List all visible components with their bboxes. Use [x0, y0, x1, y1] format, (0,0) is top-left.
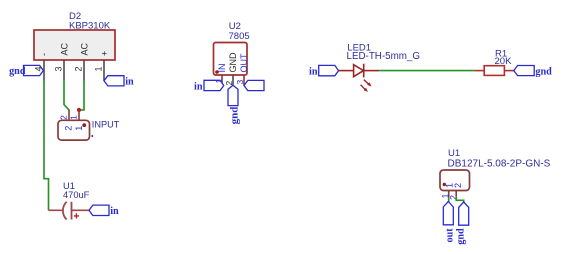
- svg-text:1: 1: [69, 115, 79, 120]
- pin 2 of D2: [83, 60, 85, 81]
- svg-text:gnd: gnd: [456, 228, 467, 245]
- connector INPUT pin 1 stub: [78, 110, 80, 120]
- svg-text:out: out: [445, 228, 456, 243]
- pin 1 of terminal U1: [448, 191, 450, 198]
- pin 1 of D2: [103, 60, 105, 81]
- capacitor straight plate: [71, 202, 73, 220]
- LED anode lead: [339, 70, 354, 72]
- svg-text:4: 4: [34, 66, 44, 71]
- svg-text:in: in: [125, 77, 134, 88]
- svg-text:DB127L-5.08-2P-GN-S: DB127L-5.08-2P-GN-S: [448, 159, 551, 170]
- resistor R1 lead right: [504, 70, 513, 72]
- resistor R1 body: [484, 66, 504, 76]
- LED emission arrow 2: [361, 85, 368, 92]
- svg-text:7805: 7805: [229, 31, 250, 42]
- svg-text:2: 2: [74, 66, 84, 71]
- svg-text:gnd: gnd: [535, 67, 552, 78]
- LED emission arrow 1: [364, 80, 372, 87]
- label dot: [91, 135, 93, 137]
- connector INPUT body: [58, 120, 90, 140]
- net flag in (U2 pin1): [204, 80, 224, 90]
- svg-text:U1: U1: [448, 148, 460, 159]
- capacitor C lead left: [49, 209, 64, 211]
- junction dot: [77, 108, 81, 112]
- terminal block U1 body: [440, 170, 470, 191]
- wire terminal pin2 to gnd flag: [456, 196, 464, 202]
- pin 2 of terminal U1: [455, 191, 457, 197]
- svg-text:3: 3: [235, 80, 245, 85]
- regulator U2 body: [214, 43, 248, 76]
- capacitor plus sign: [74, 213, 79, 218]
- capacitor lead right: [72, 209, 89, 211]
- connector INPUT pin1 mark dot: [82, 123, 86, 127]
- wire bridge pin4 to capacitor: [44, 81, 49, 211]
- LED cathode bar: [363, 64, 365, 78]
- net flag in (capacitor): [89, 205, 109, 215]
- svg-text:AC: AC: [60, 42, 70, 55]
- pin 3 of D2: [63, 60, 65, 81]
- pin 2 of U2: [232, 75, 234, 85]
- wire terminal pin1 to out flag: [448, 198, 450, 202]
- svg-text:INPUT: INPUT: [92, 119, 120, 129]
- bridge rectifier D2 body: [34, 30, 115, 60]
- svg-text:-: -: [39, 53, 49, 56]
- net flag unnamed (U2 pin3): [244, 80, 264, 90]
- svg-text:in: in: [309, 67, 318, 78]
- net flag in (bridge pin 1): [104, 76, 124, 86]
- svg-text:1: 1: [94, 66, 104, 71]
- svg-text:AC: AC: [80, 42, 90, 55]
- svg-text:gnd: gnd: [9, 66, 26, 77]
- net flag out (terminal pin1): [443, 202, 453, 225]
- svg-text:2: 2: [453, 183, 463, 188]
- resistor R1 lead left: [475, 70, 485, 72]
- svg-text:IN: IN: [217, 64, 227, 73]
- svg-text:2: 2: [224, 81, 234, 86]
- U2 pin1 mark dot: [215, 70, 219, 74]
- svg-text:in: in: [194, 81, 203, 92]
- LED triangle: [354, 65, 364, 77]
- svg-text:gnd: gnd: [229, 107, 241, 125]
- LED cathode lead: [364, 70, 380, 72]
- svg-text:1: 1: [74, 126, 84, 131]
- svg-text:2: 2: [64, 126, 74, 131]
- svg-text:1: 1: [214, 79, 224, 84]
- net flag gnd (terminal pin2): [459, 202, 469, 225]
- pin 4 of D2: [43, 60, 45, 81]
- net flag gnd (R1): [514, 66, 534, 76]
- pin 1 of U2: [221, 75, 223, 85]
- svg-text:LED-TH-5mm_G: LED-TH-5mm_G: [347, 51, 420, 62]
- pin 3 of U2: [243, 75, 245, 86]
- wire LED to R1: [379, 70, 474, 72]
- svg-text:in: in: [110, 206, 119, 217]
- connector INPUT pin 2 stub: [68, 110, 70, 120]
- svg-text:2: 2: [58, 115, 68, 120]
- svg-text:OUT: OUT: [239, 53, 249, 73]
- net flag gnd (bridge pin 4): [24, 65, 44, 75]
- svg-text:3: 3: [54, 66, 64, 71]
- svg-text:470uF: 470uF: [63, 190, 90, 200]
- terminal U1 pin1 mark dot: [443, 183, 446, 186]
- net flag in (LED anode): [319, 65, 339, 75]
- svg-text:+: +: [100, 51, 110, 56]
- wire bridge pin3 to INPUT pin2: [64, 81, 69, 111]
- svg-text:GND: GND: [228, 52, 238, 73]
- wire bridge pin2 to INPUT pin1: [79, 81, 84, 111]
- net flag gnd (U2 pin2): [228, 85, 238, 105]
- capacitor curved plate: [63, 202, 67, 220]
